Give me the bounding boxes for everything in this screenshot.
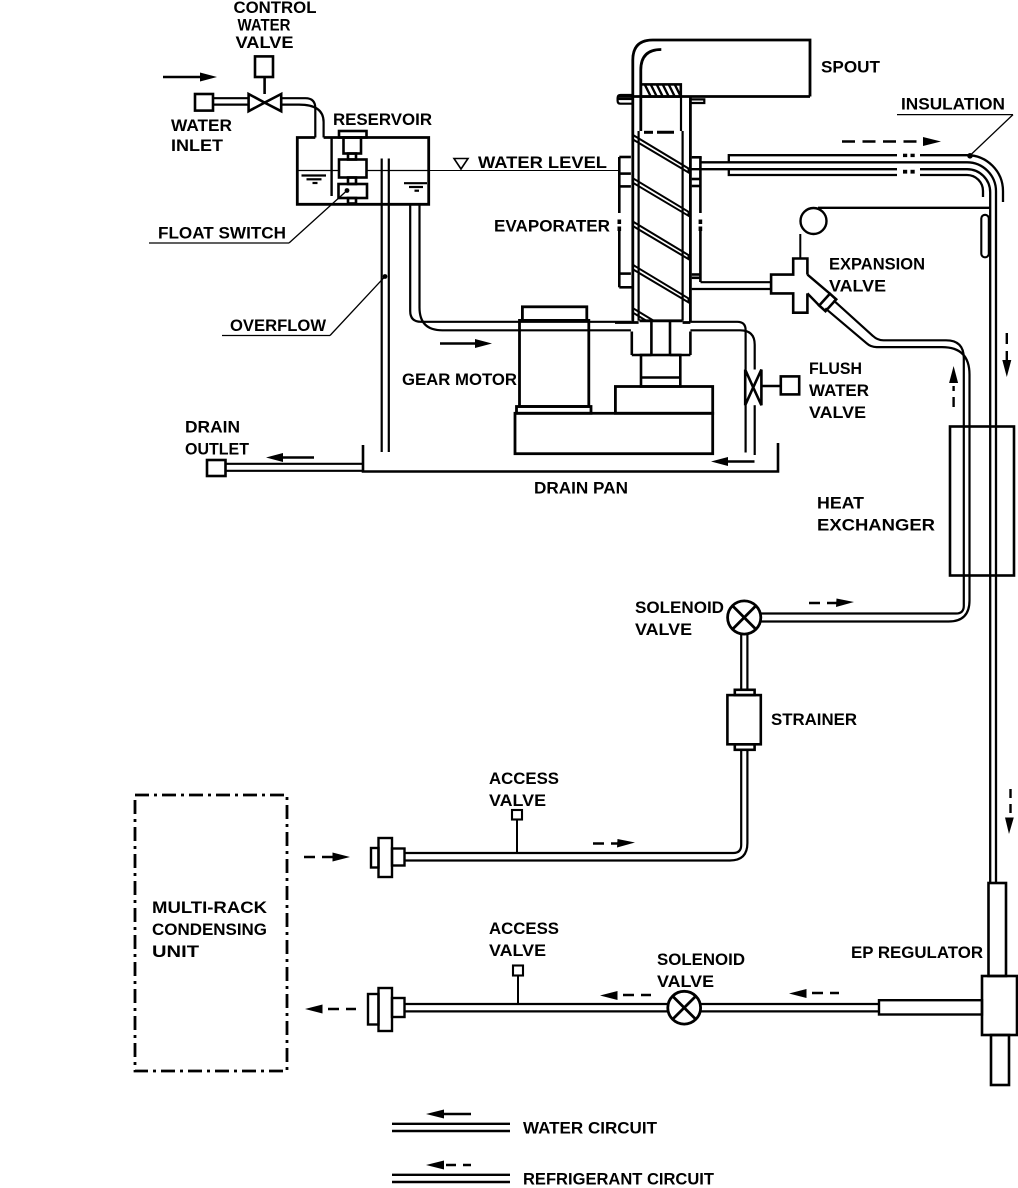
svg-text:ACCESS: ACCESS (489, 770, 559, 788)
svg-text:VALVE: VALVE (489, 942, 546, 960)
water level marker triangle (454, 159, 468, 170)
insulated suction line: pipe walls (691, 162, 996, 883)
svg-text:REFRIGERANT CIRCUIT: REFRIGERANT CIRCUIT (523, 1170, 715, 1188)
water surface symbol left (302, 176, 327, 184)
pipe: heat exchanger down to solenoid valve 1 (761, 576, 970, 622)
pipe: access 2 to solenoid valve 2 (405, 1004, 668, 1011)
svg-text:EXCHANGER: EXCHANGER (817, 517, 935, 535)
heat exchanger box (950, 427, 1014, 576)
svg-text:RESERVOIR: RESERVOIR (333, 111, 432, 129)
water inlet fitting (195, 94, 213, 111)
auger top bearing hatched box (641, 84, 681, 96)
drain outlet pipe (226, 464, 364, 471)
gear motor (517, 307, 592, 414)
dashed arrow down (suction flow) (1002, 333, 1011, 377)
pipe: expansion valve outlet to evaporator (692, 282, 771, 289)
auger flights (633, 135, 689, 321)
multi-rack condensing unit (dash-dot box) (135, 795, 287, 1071)
svg-text:DRAIN PAN: DRAIN PAN (534, 480, 628, 498)
svg-text:INLET: INLET (171, 137, 223, 155)
dashed arrow down (suction to EP regulator) (1005, 789, 1014, 834)
svg-text:FLOAT SWITCH: FLOAT SWITCH (158, 225, 286, 243)
spout outline (618, 40, 810, 322)
water level line to evaporator (429, 170, 620, 172)
svg-text:EVAPORATER: EVAPORATER (494, 218, 610, 236)
motor block (615, 387, 712, 414)
svg-text:STRAINER: STRAINER (771, 711, 857, 729)
pipe break marks with dots (903, 154, 915, 174)
dashed arrow EP to solenoid 2 (789, 989, 839, 998)
svg-text:EXPANSION: EXPANSION (829, 256, 925, 274)
svg-text:ACCESS: ACCESS (489, 920, 559, 938)
drain pan (363, 443, 778, 472)
pipe: reservoir outlet down and right to evaporator (410, 204, 631, 330)
svg-text:WATER: WATER (238, 17, 291, 35)
svg-text:SPOUT: SPOUT (821, 59, 880, 77)
legend: water circuit symbol (392, 1110, 510, 1132)
left water jacket (619, 157, 631, 287)
access valve 1 (512, 810, 522, 820)
water flow arrow to gear motor area (440, 339, 492, 348)
flush water valve FWV (745, 370, 799, 406)
dashed arrow access 2 to multirack (305, 1005, 356, 1014)
evaporator neck to gear motor (632, 321, 691, 355)
svg-text:SOLENOID: SOLENOID (635, 599, 724, 617)
spout right mounting tab (690, 99, 704, 103)
access valve 2 (513, 966, 523, 976)
bearing box bottom cap (644, 131, 674, 134)
pipe: solenoid valve 2 to EP regulator (701, 1004, 879, 1011)
reservoir tank (297, 138, 428, 205)
line: accumulator to expansion valve (799, 234, 801, 259)
pipe: expansion valve inlet from heat exchanger (liquid line) (825, 300, 969, 426)
right water jacket (692, 157, 702, 282)
drain outlet fitting (207, 460, 226, 476)
svg-text:WATER: WATER (171, 117, 232, 135)
svg-text:VALVE: VALVE (809, 404, 866, 422)
heat exchanger internal pipes (964, 427, 970, 576)
dashed flow arrow on insulation (842, 137, 941, 146)
drain flow arrow (266, 453, 314, 462)
insulation jacket outer walls (729, 155, 1003, 202)
svg-text:VALVE: VALVE (829, 278, 886, 296)
svg-text:FLUSH: FLUSH (809, 360, 862, 378)
svg-text:HEAT: HEAT (817, 495, 864, 513)
solenoid valve 2 (668, 991, 701, 1024)
svg-text:CONDENSING: CONDENSING (152, 921, 267, 939)
pipe: control valve to reservoir (281, 98, 323, 137)
dashed arrow up (liquid flow) (949, 366, 958, 407)
dashed arrow (solenoid to HX flow) (809, 599, 854, 608)
evaporator bottom ledge (615, 321, 690, 323)
svg-text:UNIT: UNIT (152, 943, 199, 961)
svg-text:SOLENOID: SOLENOID (657, 951, 745, 969)
legend: refrigerant circuit symbol (392, 1161, 510, 1183)
access fitting 2 (flare union) (368, 988, 405, 1031)
solenoid valve 1 (728, 601, 761, 634)
svg-text:OUTLET: OUTLET (185, 441, 249, 459)
evaporator column walls (689, 97, 692, 323)
float switch assembly (339, 131, 368, 204)
svg-text:VALVE: VALVE (236, 34, 294, 52)
overflow pipe (382, 159, 389, 453)
svg-text:CONTROL: CONTROL (234, 0, 317, 17)
pipe: solenoid valve 1 down to strainer (741, 634, 747, 690)
water inlet flow arrow (163, 73, 217, 82)
auger drive coupling (641, 355, 680, 387)
svg-text:VALVE: VALVE (635, 621, 692, 639)
EP regulator suction header pipe (879, 1000, 982, 1014)
dashed arrow on liquid line 1 (593, 839, 635, 848)
dashed arrow solenoid 2 to access 2 (600, 991, 651, 1000)
hatch strokes (645, 85, 681, 96)
pipe: flush valve down to drain pan (746, 405, 755, 455)
reservoir water level line (297, 170, 429, 172)
expansion valve body (771, 259, 836, 313)
access fitting 1 (flare union) (371, 838, 405, 877)
accumulator circle (801, 208, 827, 234)
svg-text:VALVE: VALVE (657, 973, 714, 991)
pipe: strainer down, curving left to access valve 1 line (405, 750, 748, 861)
left jacket break dots (618, 220, 622, 232)
flush water return arrow into pan (711, 457, 755, 466)
suction tee line from accumulator (818, 207, 990, 209)
svg-text:EP REGULATOR: EP REGULATOR (851, 944, 983, 962)
svg-text:MULTI-RACK: MULTI-RACK (152, 899, 267, 917)
dashed arrow multirack to access 1 (304, 853, 350, 862)
right jacket break dots (699, 220, 703, 232)
water surface symbol right (404, 183, 427, 191)
inner column walls (639, 97, 683, 321)
reservoir internal baffle (330, 138, 332, 197)
svg-text:DRAIN: DRAIN (185, 419, 240, 437)
svg-text:WATER CIRCUIT: WATER CIRCUIT (523, 1119, 658, 1138)
EP regulator body (982, 883, 1017, 1085)
expansion valve sensing bulb (981, 215, 989, 257)
strainer (727, 690, 760, 750)
machine base (515, 413, 713, 453)
pipe: water inlet to control valve (213, 98, 249, 104)
control water valve CWV (249, 56, 282, 111)
svg-text:VALVE: VALVE (489, 792, 546, 810)
pipe: evaporator water out right side to flush valve (690, 322, 754, 370)
spout left mounting stub (618, 95, 633, 104)
svg-text:WATER: WATER (809, 382, 869, 400)
svg-text:GEAR MOTOR: GEAR MOTOR (402, 371, 517, 389)
svg-text:OVERFLOW: OVERFLOW (230, 317, 326, 335)
svg-text:WATER LEVEL: WATER LEVEL (478, 154, 607, 172)
svg-text:INSULATION: INSULATION (901, 96, 1005, 114)
